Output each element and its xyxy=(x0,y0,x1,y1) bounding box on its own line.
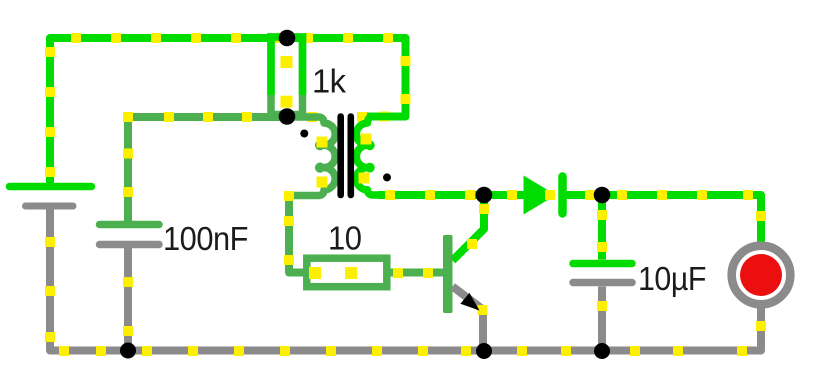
wire: diode cathode to output node, right to LED top and down to capacitor C2 xyxy=(507,190,766,260)
junction: top bus / R1 top xyxy=(279,30,296,47)
wire: capacitor C2 bottom to ground bus xyxy=(597,287,607,348)
wire: battery + terminal up to top bus, right to corner, down to transformer secondary top xyxy=(45,33,411,184)
ground rail: battery - terminal, bottom bus, up to LED bottom xyxy=(45,209,766,356)
LED / lamp X1 red core xyxy=(740,254,782,296)
transistor Q1 base bar xyxy=(443,235,453,313)
battery B1 long (+) plate xyxy=(10,183,92,191)
transformer T1 core bars xyxy=(341,117,351,196)
capacitor C1 100nF bottom plate xyxy=(100,241,160,249)
wire: resistor R2 to transistor Q1 base xyxy=(390,268,444,278)
label: 1k value of resistor R1 xyxy=(312,63,346,100)
capacitor C2 10uF bottom plate xyxy=(573,279,632,287)
resistor R2 10 (horizontal box) xyxy=(307,258,387,287)
svg-text:100nF: 100nF xyxy=(163,220,248,257)
transformer T1 secondary winding (right coil) xyxy=(356,117,405,196)
label: 100nF value of capacitor C1 xyxy=(163,220,248,257)
LED / lamp X1 outer ring xyxy=(732,246,791,305)
junction: emitter on ground bus xyxy=(476,343,492,359)
transformer T1 primary winding (left coil) xyxy=(287,117,335,196)
battery B1 short (-) plate xyxy=(26,203,74,210)
resistor R1 1k (vertical box) xyxy=(271,37,303,115)
wire: transformer primary bottom down and left to resistor R2 xyxy=(284,191,304,273)
transformer T1 secondary phase dot xyxy=(383,173,391,181)
junction: secondary bottom / collector / diode anode xyxy=(476,187,493,204)
label: 10 value of resistor R2 xyxy=(328,220,362,257)
transformer T1 primary phase dot xyxy=(300,130,308,138)
capacitor C2 10uF top plate xyxy=(573,260,632,268)
wire: transformer secondary bottom / main output rail to diode anode, with collector branch xyxy=(378,190,524,261)
junction: R1 bottom / C1 / primary top xyxy=(279,108,296,125)
wire: capacitor C1 bottom to ground bus xyxy=(123,248,133,347)
capacitor C1 100nF top plate xyxy=(100,221,160,229)
svg-text:10µF: 10µF xyxy=(638,260,706,297)
diode D1 (pointing right) xyxy=(524,176,563,215)
junction: C1 bottom on ground bus xyxy=(120,343,136,359)
wire: capacitor C1 top / resistor R1 bottom node to transformer primary top xyxy=(123,112,317,221)
label: 10uF value of capacitor C2 xyxy=(638,260,706,297)
svg-text:10: 10 xyxy=(328,220,362,257)
junction: diode cathode / C2 top / LED top xyxy=(594,187,611,204)
svg-text:1k: 1k xyxy=(312,63,346,100)
transistor Q1 emitter with arrow xyxy=(453,287,488,351)
junction: C2 bottom on ground bus xyxy=(594,343,610,359)
